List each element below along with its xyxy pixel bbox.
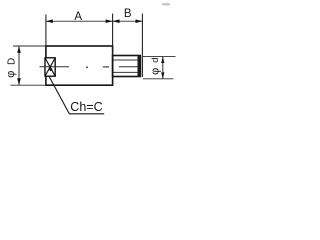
centerline dash 3 (through thread) xyxy=(119,66,138,68)
svg-text:A: A xyxy=(74,11,82,23)
thread minor diameter line top xyxy=(113,59,137,61)
extension line right (B) xyxy=(141,14,143,77)
arrow B left xyxy=(113,19,120,23)
phid extension line bottom xyxy=(143,78,174,80)
arrow A right xyxy=(106,19,113,23)
crimp box X diagonal 2 xyxy=(45,58,55,76)
centerline dash 2 xyxy=(103,66,109,68)
thread end chamfer + end face (solid bar) xyxy=(138,56,142,77)
phiD arrow up xyxy=(17,46,21,53)
threaded stud outline xyxy=(113,56,141,77)
thread minor diameter line bottom xyxy=(113,71,137,73)
svg-text:d: d xyxy=(150,58,161,63)
body outline (cylindrical ferrule) xyxy=(46,46,113,85)
arrow B right xyxy=(136,19,143,23)
centerline dot xyxy=(86,66,88,68)
extension line middle (A/B shared) xyxy=(112,14,114,56)
centerline dash 1 xyxy=(40,66,70,68)
svg-text:φ: φ xyxy=(149,68,161,75)
leader line to Ch=C xyxy=(49,76,69,114)
underline of Ch=C xyxy=(69,113,104,115)
phiD extension line bottom xyxy=(11,84,46,86)
svg-text:D: D xyxy=(7,58,18,65)
phiD arrow down xyxy=(17,78,21,85)
phiD dimension line xyxy=(18,46,20,85)
crimp box X diagonal 1 xyxy=(45,58,55,76)
svg-text:Ch=C: Ch=C xyxy=(70,100,102,114)
svg-text:B: B xyxy=(124,8,132,20)
phid arrow down xyxy=(161,72,164,78)
dimension line A and B (shared horizontal) xyxy=(46,20,142,22)
extension line left (A) xyxy=(45,15,47,47)
phiD extension line top xyxy=(13,45,46,47)
phid arrow up xyxy=(161,57,164,63)
crimp box xyxy=(45,58,55,76)
junction dot xyxy=(49,68,52,71)
svg-text:φ: φ xyxy=(5,71,17,78)
phid dimension line xyxy=(162,57,164,79)
phid extension line top xyxy=(142,56,176,58)
arrow A left xyxy=(46,19,53,23)
scan smudge top right xyxy=(162,3,171,6)
